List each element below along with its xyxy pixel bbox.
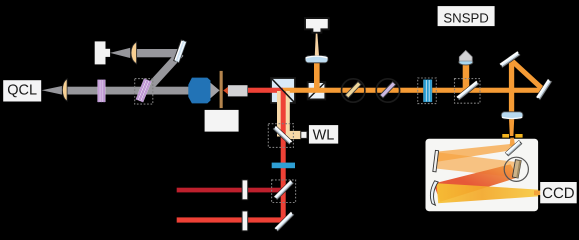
- half-wave plate HWP: [342, 79, 365, 102]
- cone out of isolator: [211, 83, 220, 98]
- diagonal orange beam wire: [509, 58, 545, 92]
- CCD label: [540, 182, 577, 203]
- cube BS2 diagonal: [309, 83, 325, 99]
- fan output to CCD: [437, 183, 539, 203]
- grating element: [512, 160, 521, 178]
- vertical tan WL beam wire: [277, 91, 290, 137]
- red beam into BS1 wire: [248, 88, 283, 93]
- etalon filter stack: [423, 80, 432, 102]
- fan collimator to grating: [437, 152, 517, 177]
- grating G1: [97, 80, 105, 102]
- focusing mirror: [430, 181, 438, 205]
- grating circle: [504, 157, 528, 181]
- WL label: [309, 125, 338, 144]
- dashed box around G2: [135, 79, 153, 105]
- optical isolator: [188, 78, 210, 104]
- bright red beam wire: [177, 217, 287, 222]
- diagonal gray beam wire: [144, 51, 184, 94]
- mirror M5: [500, 51, 520, 67]
- cone into power meter: [110, 48, 130, 58]
- SNSPD dome: [459, 50, 472, 61]
- window W1: [242, 180, 248, 200]
- SNSPD coupling lens: [459, 60, 473, 65]
- orange beam up to SNSPD dome: [463, 65, 470, 90]
- svg-text:SNSPD: SNSPD: [443, 11, 488, 26]
- svg-text:WL: WL: [313, 127, 335, 143]
- power meter head: [95, 41, 110, 64]
- longpass filter blue: [272, 163, 295, 169]
- fan entrance to collimating mirror: [437, 144, 512, 162]
- main gray beam wire: [63, 87, 190, 95]
- cube BS1 diagonal: [272, 79, 294, 102]
- dashed box around WL mirror: [268, 124, 293, 148]
- horizontal tan WL beam wire: [288, 131, 301, 139]
- vertical red beam wire: [281, 91, 286, 222]
- WL flip mirror: [273, 126, 292, 144]
- window W2: [242, 211, 248, 231]
- grating G2 tilted: [136, 79, 152, 103]
- focus cone orange: [223, 87, 228, 94]
- mirror M4: [275, 212, 294, 231]
- SNSPD label: [437, 5, 496, 27]
- imaging lens L4: [501, 112, 523, 119]
- svg-text:QCL: QCL: [7, 82, 37, 98]
- mirror M1: [174, 40, 187, 63]
- dark red beam wire: [177, 188, 285, 193]
- quarter-wave plate QWP: [376, 79, 399, 102]
- collimating mirror: [433, 150, 439, 172]
- lens L2: [131, 42, 137, 64]
- fiber collimator body: [228, 85, 248, 96]
- top arm gray beam wire: [135, 49, 180, 57]
- detector box (fiber): [305, 18, 329, 33]
- QCL label: [3, 80, 41, 101]
- fan grating to focusing mirror: [434, 164, 519, 202]
- slit right blade: [515, 134, 522, 138]
- beamsplitter cube BS1 body: [271, 78, 295, 103]
- svg-text:CCD: CCD: [542, 185, 575, 202]
- SNSPD flip mirror: [457, 81, 479, 100]
- exit beam to CCD: [534, 191, 542, 196]
- WL fiber facet: [301, 131, 307, 138]
- tan converging beam to detector: [315, 33, 319, 56]
- beamsplitter cube BS2 body: [308, 82, 326, 99]
- beam slit to fold mirror: [510, 138, 516, 147]
- pickoff mirror M3: [274, 180, 293, 199]
- orange beam up to SNSPD fiber: [314, 63, 320, 92]
- orange main beam wire: [283, 88, 544, 93]
- lens L1: [62, 79, 67, 101]
- fiber lens L3: [305, 56, 328, 63]
- dashed box around etalon: [418, 78, 437, 104]
- mirror M6: [536, 79, 552, 100]
- dashed box around SNSPD mirror: [455, 79, 481, 104]
- sample plane bar: [220, 71, 223, 108]
- spectrometer box: [426, 139, 539, 212]
- vertical orange beam to spectrometer: [509, 59, 514, 112]
- fold mirror in spectrometer: [506, 141, 522, 156]
- converging beam into slit: [509, 119, 514, 136]
- sample stage box: [205, 110, 239, 132]
- dashed box around M3: [272, 180, 296, 203]
- slit left blade: [502, 134, 509, 138]
- QCL emission cone: [42, 86, 62, 95]
